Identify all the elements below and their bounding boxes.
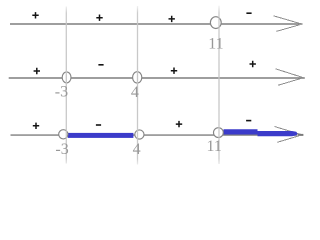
svg-text:-3: -3 [55, 84, 68, 101]
arrowhead line 1 upper stroke [274, 16, 303, 24]
arrowhead line 2 lower stroke [278, 79, 301, 86]
plus sign top line interval 1 [32, 12, 38, 18]
open circle at -3 (middle line) [62, 72, 71, 83]
vertical gridline at x=4 [137, 6, 139, 165]
minus sign bottom line interval 2 [96, 124, 101, 126]
plus sign top line interval 3 [169, 16, 175, 22]
arrowhead line 1 lower stroke [276, 25, 299, 32]
minus sign bottom line interval 4 [246, 120, 251, 122]
arrowhead line 3 lower stroke [277, 136, 299, 143]
plus sign middle line interval 1 [34, 68, 40, 74]
open circle at 11 (top line) [210, 17, 221, 29]
plus sign bottom line interval 1 [33, 123, 39, 129]
plus sign middle line interval 3 [171, 68, 177, 74]
arrowhead line 3 upper stroke [275, 127, 304, 136]
open circle at 4 (bottom line) [135, 130, 144, 139]
svg-text:-3: -3 [55, 141, 68, 158]
svg-text:4: 4 [133, 141, 141, 158]
number line 1 (top) [10, 23, 303, 25]
blue solution segment from -3 to 4 on bottom line [68, 133, 134, 138]
minus sign top line interval 4 [246, 12, 251, 14]
number line 3 (bottom) [11, 134, 298, 136]
open circle at -3 (bottom line) [59, 130, 68, 139]
plus sign middle line interval 4 [250, 61, 256, 67]
plus sign bottom line interval 3 [176, 121, 182, 127]
arrowhead line 2 upper stroke [276, 69, 304, 78]
vertical gridline at x=-3 [65, 7, 67, 164]
svg-text:11: 11 [206, 138, 221, 155]
open circle at 4 (middle line) [133, 72, 142, 83]
svg-text:11: 11 [208, 35, 223, 52]
vertical gridline at x=11 [218, 6, 220, 164]
svg-text:4: 4 [131, 84, 139, 101]
blue solution ray from 11 on bottom line [224, 129, 298, 136]
arrowhead line 3 tip blob [298, 134, 304, 136]
minus sign middle line interval 2 [98, 64, 103, 66]
open circle at 11 (bottom line) [214, 128, 224, 138]
number line 2 (middle) [9, 77, 305, 79]
plus sign top line interval 2 [96, 15, 102, 21]
